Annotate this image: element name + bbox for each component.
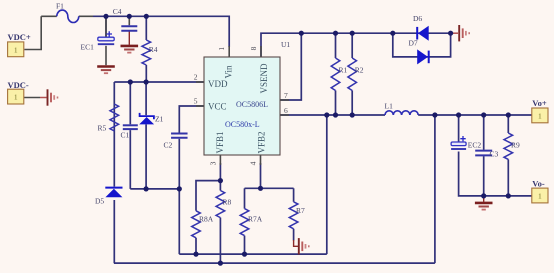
svg-text:D6: D6 xyxy=(413,14,422,23)
svg-text:C4: C4 xyxy=(113,7,122,16)
svg-text:C3: C3 xyxy=(490,150,499,159)
svg-text:Vin: Vin xyxy=(224,65,234,78)
svg-text:3: 3 xyxy=(209,161,218,165)
svg-text:D7: D7 xyxy=(409,39,418,48)
svg-text:VFB2: VFB2 xyxy=(257,131,267,153)
svg-text:5: 5 xyxy=(194,97,198,106)
svg-text:C2: C2 xyxy=(164,141,173,150)
svg-text:R7: R7 xyxy=(296,206,305,215)
svg-text:1: 1 xyxy=(14,93,18,102)
svg-text:2: 2 xyxy=(194,73,198,82)
svg-text:C1: C1 xyxy=(121,131,130,140)
svg-text:6: 6 xyxy=(284,106,288,115)
svg-text:R7A: R7A xyxy=(248,215,263,224)
svg-text:1: 1 xyxy=(217,47,226,51)
svg-text:R9: R9 xyxy=(511,141,520,150)
svg-text:Z1: Z1 xyxy=(155,115,164,124)
svg-text:VDD: VDD xyxy=(208,79,228,89)
svg-text:OC580x-L: OC580x-L xyxy=(225,120,260,129)
svg-text:VDC+: VDC+ xyxy=(8,32,31,42)
svg-text:1: 1 xyxy=(538,111,542,120)
svg-text:R4: R4 xyxy=(149,45,158,54)
svg-text:VFB1: VFB1 xyxy=(215,131,225,153)
svg-text:U1: U1 xyxy=(281,40,290,49)
svg-text:R8A: R8A xyxy=(199,215,214,224)
svg-text:VCC: VCC xyxy=(208,102,227,112)
svg-text:F1: F1 xyxy=(56,2,64,11)
svg-text:Vo-: Vo- xyxy=(532,179,545,189)
svg-text:R2: R2 xyxy=(355,66,364,75)
svg-text:7: 7 xyxy=(284,91,288,100)
svg-text:R8: R8 xyxy=(223,198,232,207)
svg-text:R5: R5 xyxy=(98,124,107,133)
svg-text:VSEND: VSEND xyxy=(259,63,269,94)
svg-text:1: 1 xyxy=(538,192,542,201)
svg-text:OC5806L: OC5806L xyxy=(236,100,268,109)
svg-text:Vo+: Vo+ xyxy=(532,98,547,108)
svg-text:R1: R1 xyxy=(339,66,348,75)
svg-text:8: 8 xyxy=(249,46,258,50)
svg-text:L1: L1 xyxy=(385,102,394,111)
svg-text:EC1: EC1 xyxy=(81,43,95,52)
svg-text:EC2: EC2 xyxy=(468,141,482,150)
svg-text:4: 4 xyxy=(249,161,258,165)
svg-text:VDC-: VDC- xyxy=(8,80,29,90)
svg-text:D5: D5 xyxy=(95,197,104,206)
svg-text:1: 1 xyxy=(14,45,18,54)
